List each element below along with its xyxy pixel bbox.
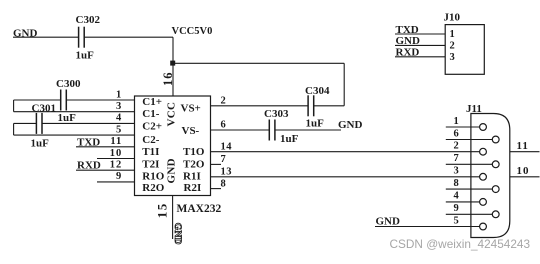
svg-text:2: 2 (454, 141, 459, 152)
svg-text:14: 14 (221, 141, 233, 152)
svg-text:3: 3 (116, 101, 122, 112)
J11 pin 1 circle (480, 124, 487, 131)
svg-text:C300: C300 (56, 78, 81, 90)
wire C301 left (14, 122, 37, 124)
wire pin2 to C304 (211, 105, 309, 107)
svg-text:C302: C302 (76, 14, 101, 26)
J11 pin 8 circle (492, 186, 499, 193)
wire pin 9 (97, 181, 135, 183)
wire TXD to pin 11 (76, 146, 135, 148)
wire C300 left (14, 99, 61, 101)
capacitor C301 (35, 113, 37, 134)
wire pin4 to C301 (42, 122, 135, 124)
svg-text:10: 10 (110, 148, 123, 159)
svg-text:8: 8 (454, 178, 459, 189)
svg-text:11: 11 (110, 136, 122, 147)
wire RXD to pin 12 (76, 169, 135, 171)
J11 pin 6 circle (492, 136, 499, 143)
svg-text:8: 8 (221, 178, 227, 189)
J11 pin 4 circle (480, 199, 487, 206)
svg-text:11: 11 (517, 140, 529, 152)
svg-text:C1+: C1+ (142, 96, 162, 108)
capacitor C300 (60, 90, 62, 111)
svg-text:T1I: T1I (142, 146, 159, 158)
svg-text:5: 5 (454, 215, 459, 226)
svg-text:T2O: T2O (183, 158, 205, 170)
svg-text:7: 7 (454, 153, 459, 164)
wire to J11 pin 1 (446, 126, 480, 128)
svg-text:3: 3 (450, 52, 455, 63)
svg-text:C301: C301 (32, 103, 56, 115)
wire down C300 loop (13, 100, 15, 112)
svg-text:R1O: R1O (142, 171, 164, 183)
wire VCC5V0 down to pin 16 (172, 37, 174, 96)
svg-text:C2-: C2- (142, 134, 159, 146)
svg-text:9: 9 (454, 203, 459, 214)
svg-text:13: 13 (221, 167, 233, 178)
svg-text:7: 7 (221, 154, 227, 165)
wire to pin 3 (14, 111, 135, 113)
wire pin 10 (97, 158, 135, 160)
wire C302 to VCC5V0 corner (84, 36, 173, 38)
wire to J11 pin 2 (211, 151, 480, 153)
wire down to C304 (343, 63, 345, 106)
svg-text:R2I: R2I (184, 182, 202, 194)
J11 pin 5 circle (480, 223, 487, 230)
wire to J11 pin 8 (446, 188, 493, 190)
wire net 11 (510, 151, 540, 153)
wire RXD to J10 pin 3 (395, 56, 445, 58)
J11 pin 9 circle (492, 211, 499, 218)
svg-text:12: 12 (110, 160, 123, 171)
svg-text:T1O: T1O (183, 146, 205, 158)
svg-text:T2I: T2I (142, 158, 159, 170)
J11 pin 3 circle (480, 173, 487, 180)
wire down C301 loop (13, 123, 15, 135)
svg-text:VS+: VS+ (181, 103, 201, 115)
svg-text:1: 1 (454, 116, 459, 127)
svg-text:1: 1 (116, 89, 122, 100)
svg-text:1uF: 1uF (31, 138, 50, 150)
svg-text:GND: GND (338, 119, 363, 131)
J11 pin 2 circle (480, 148, 487, 155)
svg-text:4: 4 (116, 113, 122, 124)
wire C303 to GND (275, 129, 341, 131)
svg-text:R2O: R2O (142, 182, 164, 194)
svg-text:1uF: 1uF (58, 112, 77, 124)
capacitor C303 (268, 120, 270, 141)
svg-text:C1-: C1- (142, 108, 159, 120)
wire to J11 pin 9 (446, 213, 493, 215)
stub pin 8 (211, 188, 222, 190)
svg-text:6: 6 (454, 128, 459, 139)
wire net 10 (510, 176, 540, 178)
wire C304 to VCC branch (314, 105, 345, 107)
svg-text:5: 5 (116, 124, 122, 135)
svg-text:C304: C304 (305, 85, 330, 97)
connector J10 body (445, 25, 484, 75)
svg-text:VCC5V0: VCC5V0 (172, 26, 213, 37)
svg-text:3: 3 (454, 166, 459, 177)
IC U1 MAX232 body (135, 96, 211, 196)
wire to J11 pin 6 (446, 139, 493, 141)
wire to J11 pin 3 (211, 176, 480, 178)
svg-text:4: 4 (454, 191, 460, 202)
svg-text:1uF: 1uF (280, 133, 299, 145)
wire to pin 5 (14, 134, 135, 136)
svg-text:GND: GND (376, 216, 401, 228)
svg-text:J10: J10 (444, 12, 461, 24)
wire to J11 pin 5 (375, 226, 480, 228)
capacitor C302 (78, 27, 80, 48)
svg-text:1: 1 (450, 29, 455, 40)
svg-text:MAX232: MAX232 (177, 203, 222, 215)
wire to J11 pin 7 (446, 163, 493, 165)
wire pin 15 down (172, 196, 174, 240)
svg-text:1uF: 1uF (306, 118, 325, 130)
wire GND to J10 pin 2 (395, 44, 445, 46)
svg-text:C2+: C2+ (142, 121, 162, 133)
junction node on VCC5V0 (170, 61, 175, 66)
svg-text:2: 2 (450, 40, 455, 51)
wire VCC branch to VS+ (173, 62, 344, 64)
connector J11 DB9 shell (471, 114, 510, 238)
wire pin6 to C303 (211, 129, 270, 131)
svg-text:CSDN @weixin_42454243: CSDN @weixin_42454243 (390, 237, 531, 251)
svg-text:15: 15 (155, 202, 170, 218)
svg-text:1uF: 1uF (76, 49, 95, 61)
stub pin 7 (211, 163, 222, 165)
svg-text:9: 9 (116, 171, 122, 182)
wire pin1 to C300 (66, 99, 134, 101)
capacitor C304 (307, 95, 309, 116)
svg-text:16: 16 (161, 72, 175, 87)
svg-text:6: 6 (221, 120, 227, 131)
J11 pin 7 circle (492, 161, 499, 168)
svg-text:GND: GND (172, 223, 182, 245)
svg-text:C303: C303 (264, 108, 289, 120)
svg-text:10: 10 (517, 165, 530, 177)
wire TXD to J10 pin 1 (395, 33, 445, 35)
svg-text:GND: GND (166, 158, 178, 183)
wire GND to C302 (13, 36, 79, 38)
wire to J11 pin 4 (446, 201, 480, 203)
svg-text:VCC: VCC (166, 102, 178, 127)
svg-text:VS-: VS- (182, 125, 200, 137)
svg-text:2: 2 (221, 96, 227, 107)
svg-text:R1I: R1I (183, 171, 201, 183)
